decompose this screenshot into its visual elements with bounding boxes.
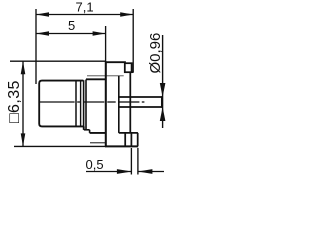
dimension 0,5 line right tail	[138, 171, 164, 173]
flange front face	[105, 61, 107, 146]
svg-text:5: 5	[68, 18, 75, 33]
rear block bottom edge	[119, 132, 138, 134]
center axis line (dash-dot)	[40, 101, 145, 103]
svg-text:7,1: 7,1	[76, 0, 94, 15]
bottom step 2 (ring bottom edge)	[90, 130, 106, 133]
extension line flange front (for dim 5)	[105, 26, 107, 62]
extension line leg right (for dim 0,5)	[137, 148, 139, 175]
bottom step 1	[84, 126, 90, 129]
groove vertical left	[83, 80, 85, 130]
arrow right 5	[93, 31, 106, 36]
extension line leg left (for dim 0,5)	[130, 148, 132, 175]
top mounting leg	[125, 63, 134, 72]
svg-text:0,5: 0,5	[86, 157, 104, 172]
arrow left-pointing 0,5	[138, 169, 153, 174]
extension line right (overall length ref)	[132, 9, 134, 72]
thin feature line lower	[90, 142, 105, 144]
thin feature line upper (behind ring)	[87, 75, 124, 77]
dimension 7,1 line	[36, 14, 133, 16]
dim 6.35 top extension line	[10, 60, 105, 62]
arrow down 6.35	[21, 133, 26, 146]
dim 6.35 vertical line	[22, 61, 24, 146]
groove vertical right	[85, 80, 87, 130]
arrow up 0.96 (to pin bottom)	[160, 107, 166, 121]
svg-text:□6,35: □6,35	[6, 80, 23, 123]
flange top edge	[105, 61, 126, 63]
arrow right-pointing 0,5	[117, 169, 131, 174]
bottom mounting legs (two cells)	[125, 133, 138, 146]
body: mating cylinder outline	[39, 81, 84, 127]
flange back face (visible mid portion)	[118, 76, 120, 133]
arrow left 5	[36, 31, 49, 36]
board/datum line bottom (thin part)	[14, 145, 106, 147]
dimension 0,5 line left tail	[86, 171, 131, 173]
arrow up 6.35	[21, 61, 26, 74]
flange bottom edge (thick part of long line)	[105, 145, 138, 147]
rear block right face	[129, 72, 131, 133]
inner vertical line 1	[75, 81, 77, 126]
inner vertical line 2	[80, 81, 82, 126]
svg-text:Ø0,96: Ø0,96	[147, 33, 164, 74]
extension line left (mating face ref)	[35, 9, 37, 84]
ring top edge	[86, 78, 106, 80]
dimension 5 line	[36, 33, 106, 35]
arrow left 7,1	[36, 12, 49, 17]
arrow right 7,1	[120, 12, 133, 17]
arrow down 0.96 (to pin top)	[160, 83, 166, 97]
center pin	[119, 96, 162, 107]
dim 0.96 vertical line	[162, 35, 164, 128]
